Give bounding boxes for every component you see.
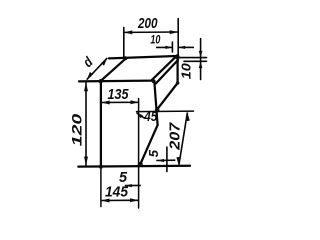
junction blob front-right top corner [152, 79, 156, 83]
dimension 145 [101, 198, 139, 202]
svg-text:10: 10 [150, 35, 160, 47]
junction blob back-right bottom corner [176, 81, 180, 85]
slanted notch edge [141, 125, 158, 164]
svg-text:d: d [80, 53, 96, 70]
extension line 10 right lower [184, 60, 207, 62]
svg-text:5: 5 [146, 149, 161, 157]
dimension 200 [124, 30, 178, 34]
svg-text:207: 207 [167, 122, 184, 151]
extension line for slant 5 [166, 147, 168, 172]
chamfer lower diagonal [156, 60, 178, 84]
back right edge [176, 56, 178, 83]
extension line 200 left [123, 28, 125, 59]
top-left depth edge [100, 58, 126, 81]
extension line 200 right [177, 19, 179, 57]
svg-text:135: 135 [108, 86, 130, 103]
dimension 135 [101, 100, 139, 104]
vertical notch edge / extension line [138, 99, 140, 209]
dimension 10 top [156, 46, 194, 49]
notch top edge with extension [137, 110, 194, 113]
front right edge [154, 81, 157, 125]
dimension 10 right arrows [199, 51, 203, 68]
leader arrow 45 [136, 112, 145, 118]
junction blob top-right corner [175, 55, 180, 60]
dimension 120 [84, 82, 88, 165]
front top edge [79, 79, 152, 82]
dimension 5 bottom [125, 184, 141, 187]
dimension d [87, 58, 108, 80]
junction blob top-left corner [99, 79, 103, 83]
dimension line 10 right [200, 39, 202, 80]
svg-text:10: 10 [180, 63, 194, 79]
dimension 5 slant [156, 159, 175, 162]
extension line 10 top left [171, 42, 173, 52]
bottom-right depth edge [158, 83, 178, 109]
chamfer upper diagonal [152, 55, 178, 80]
junction blob back-top-left corner [124, 56, 128, 60]
svg-text:120: 120 [70, 113, 85, 146]
bottom edge [78, 165, 190, 168]
front left edge extension down [100, 167, 102, 207]
front left edge [100, 81, 102, 167]
svg-text:200: 200 [137, 15, 158, 32]
dimension 207 [176, 112, 189, 165]
back top edge [109, 56, 177, 58]
junction blob bottom-left corner [99, 164, 103, 168]
svg-text:145: 145 [105, 184, 129, 201]
extension line 10 right upper [180, 57, 207, 59]
junction blob notch junction [155, 108, 160, 113]
junction blob diagonal-bottom junction [138, 162, 143, 167]
